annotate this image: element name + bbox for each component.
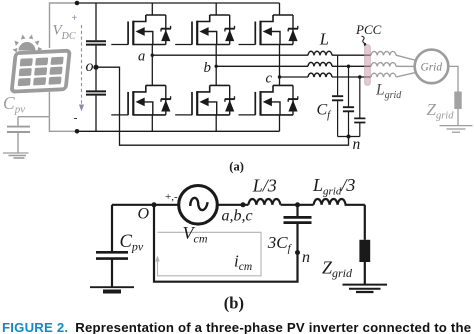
inductor L phase b [308,62,332,66]
junction DC+ terminal [75,1,80,6]
node n dot (b) [295,250,300,255]
VDC dashed arrow [79,25,84,112]
icm current loop arrow [155,232,261,275]
svg-text:c: c [266,70,273,86]
inductor Lgrid phase b [371,63,396,67]
top rail (b) [112,204,248,206]
inductor L phase a [308,51,332,55]
svg-text:b: b [204,60,212,76]
node a,b,c dot [241,202,246,207]
node n junction (a) [347,135,351,139]
inductor L phase c [308,73,332,77]
capacitor Cf phase c [359,77,361,137]
ground (a, Cpv) [3,152,29,154]
inductor Lgrid/3 [314,199,346,205]
PCC squiggle arrow [362,36,367,44]
sun [13,35,43,53]
svg-text:n: n [302,249,310,266]
top rail [77,2,280,4]
impedance Zgrid (b) [359,240,370,262]
bottom rail [77,130,280,132]
dc-link capacitor 2 [86,91,106,94]
transistor Q6 bottom leg c [239,85,299,115]
node o wire to n-line [96,67,349,145]
junction Cf-b tap [347,65,351,69]
cap bottom bar [338,136,360,138]
svg-text:+,-: +,- [165,191,178,203]
capacitor Cf phase a [337,55,339,136]
converging wires to grid [396,55,417,60]
svg-text:O: O [138,205,150,222]
capacitor Cf phase b [348,66,350,136]
ground (a, Zgrid) [440,125,473,127]
O drop and bottom rail [154,205,298,282]
filter capacitors Cf [332,55,365,136]
impedance Zgrid (a) [454,92,461,110]
node a (leg tap) [151,54,154,57]
ground (b, Zgrid) [343,284,388,286]
svg-text:o: o [86,58,94,75]
svg-text:n: n [353,136,361,153]
grid inductors Lgrid [371,51,417,77]
transistor Q4 bottom leg a [111,85,171,115]
phase b wire [216,65,371,67]
wire PV bottom [48,92,50,117]
svg-text:a: a [138,49,145,65]
svg-text:+: + [72,13,78,24]
phase c wire [280,76,371,78]
node O dot [152,202,157,207]
PV panel icon [12,35,70,92]
dc-link vertical [95,3,97,131]
junction Cf-c tap [358,75,362,79]
phase wires + inverter inductors L [152,51,370,77]
node c (leg tap) [278,75,281,78]
svg-text:(b): (b) [224,294,244,313]
junction 3Cf tap [295,202,300,207]
svg-text:L/3: L/3 [252,175,277,195]
gray PV wires [3,3,78,158]
inductor Lgrid phase a [371,51,396,55]
svg-text:Grid: Grid [421,62,443,74]
svg-text:-: - [74,111,78,125]
DC bus black [77,3,349,145]
wire PV top to DC bus [50,3,79,48]
left branch to Cpv (b) [111,205,113,252]
dc-link capacitor 1 [86,41,106,44]
inductor Lgrid phase c [371,73,396,77]
junction DC- terminal [75,129,80,134]
phase a wire [152,54,370,56]
transistor Q3 top leg c [239,15,299,45]
node b (leg tap) [215,65,218,68]
transistor Q5 bottom leg b [175,85,235,115]
grid circle symbol [415,50,449,84]
capacitor Cpv (a) [17,117,19,126]
svg-text:PCC: PCC [355,22,382,37]
3Cf capacitor [296,205,298,217]
source Vcm sine [190,198,207,210]
svg-text:a,b,c: a,b,c [222,207,253,224]
right branch Zgrid (b) [364,205,366,240]
inductor L/3 [248,199,280,205]
panel frame (sheared) [12,51,70,92]
svg-text:L: L [319,30,329,49]
grid to Zgrid wire [440,66,473,132]
wire to Cpv [18,116,49,118]
svg-text:(a): (a) [229,159,244,173]
PCC bar [365,45,371,86]
ground (b, Cpv) [90,286,134,288]
leg verticals [152,3,279,131]
node o dot [93,65,98,70]
transistor Q1 top leg a [111,15,171,45]
capacitor Cpv (b) plates [96,252,128,258]
source Vcm circle [179,186,218,225]
transistor Q2 top leg b [175,15,235,45]
